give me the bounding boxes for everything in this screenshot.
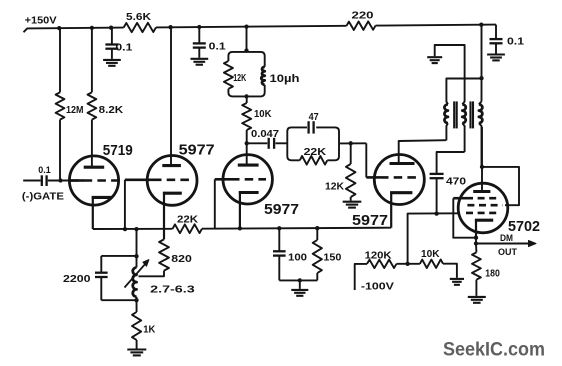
svg-text:SeekIC.com: SeekIC.com: [443, 340, 545, 361]
svg-text:5977: 5977: [264, 201, 299, 218]
svg-text:100: 100: [288, 253, 307, 264]
svg-text:120K: 120K: [365, 250, 393, 261]
svg-text:0.1: 0.1: [507, 37, 524, 48]
svg-text:OUT: OUT: [498, 247, 517, 257]
svg-text:1K: 1K: [143, 325, 156, 336]
svg-text:2200: 2200: [63, 274, 91, 285]
svg-text:5.6K: 5.6K: [126, 12, 152, 23]
svg-text:-100V: -100V: [361, 281, 394, 292]
svg-text:(-)GATE: (-)GATE: [22, 192, 64, 203]
svg-text:12K: 12K: [233, 73, 247, 84]
svg-text:10K: 10K: [421, 249, 440, 260]
svg-text:2.7-6.3: 2.7-6.3: [150, 285, 195, 296]
svg-text:10µh: 10µh: [270, 73, 300, 85]
svg-text:0.1: 0.1: [38, 165, 51, 175]
svg-text:+150V: +150V: [25, 16, 57, 27]
svg-text:150: 150: [323, 253, 341, 264]
svg-text:47: 47: [309, 112, 319, 123]
svg-text:5719: 5719: [103, 142, 133, 159]
svg-text:0.1: 0.1: [115, 43, 132, 54]
svg-text:470: 470: [446, 177, 466, 188]
svg-text:0.047: 0.047: [251, 129, 279, 140]
svg-text:0.1: 0.1: [209, 42, 226, 53]
svg-text:12M: 12M: [66, 105, 84, 116]
svg-text:8.2K: 8.2K: [99, 105, 124, 116]
svg-text:DM: DM: [500, 233, 513, 243]
svg-text:10K: 10K: [254, 109, 272, 120]
svg-text:5977: 5977: [179, 142, 215, 159]
svg-text:22K: 22K: [177, 214, 199, 225]
svg-text:12K: 12K: [325, 182, 345, 193]
svg-text:22K: 22K: [304, 147, 327, 158]
svg-text:180: 180: [485, 268, 500, 279]
svg-text:220: 220: [352, 11, 374, 22]
svg-text:5977: 5977: [352, 212, 388, 229]
svg-text:820: 820: [171, 254, 192, 265]
